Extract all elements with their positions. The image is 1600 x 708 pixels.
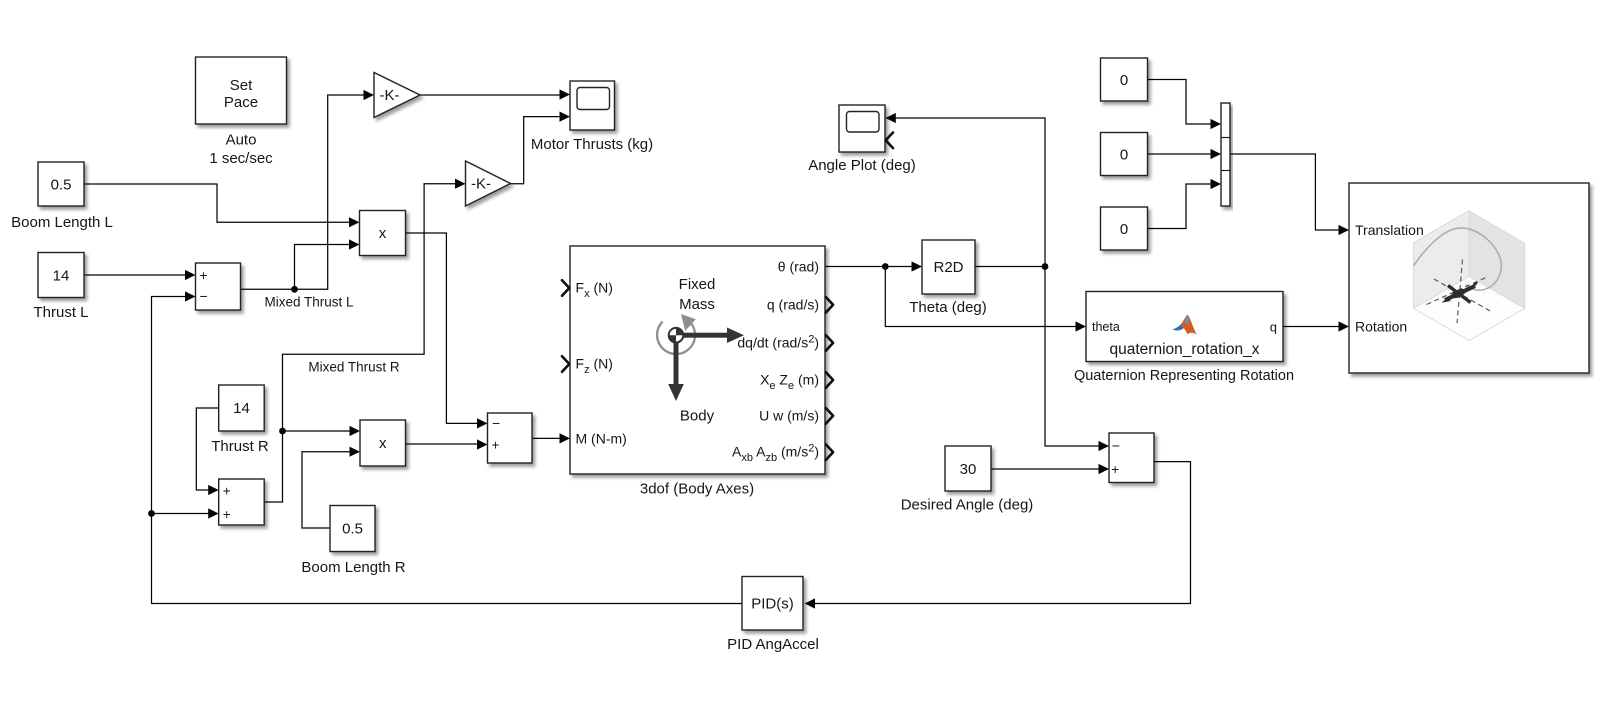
arrow into Product R in1 [350,426,361,436]
junction Mixed Thrust R [279,428,286,435]
pid PID AngAccel [727,577,819,654]
wire theta branch to quaternion block [885,267,1078,327]
arrow into PID [805,598,816,608]
junction theta deg [1042,263,1049,270]
svg-text:Translation: Translation [1355,222,1424,238]
icon label Fixed Mass [679,276,716,313]
port label Axb Azb (m/s2) [732,443,819,465]
svg-text:PID(s): PID(s) [751,596,794,613]
svg-text:x: x [379,435,387,452]
wire PID output feedback to Sum L minus [152,297,743,604]
svg-text:Motor Thrusts (kg): Motor Thrusts (kg) [531,136,653,153]
icon cube floor [1414,277,1525,341]
wire Gain2 out to Motor Thrusts scope in2 [511,117,563,184]
arrow into scope1 in2 [560,112,571,122]
wire Desired Angle to Sum3 plus [991,468,1102,470]
wire feedback branch to Sum R in2 [152,513,212,515]
constant Desired Angle [901,446,1034,514]
chevron output Axb [826,444,833,460]
port label dq/dt (rad/s2) [737,334,819,351]
icon 3dof CoM circle [669,328,684,343]
svg-text:0: 0 [1120,147,1128,164]
arrow into Angle Plot scope [885,113,896,123]
arrow into Sum L plus [185,270,196,280]
wire Sum L out (Mixed Thrust L) to Gain1 [241,95,367,289]
scope Angle Plot [808,105,916,174]
svg-text:0.5: 0.5 [342,521,363,538]
svg-text:θ (rad): θ (rad) [778,259,819,275]
wire Mux out to Translation input [1230,154,1342,230]
svg-text:Boom Length R: Boom Length R [301,559,405,576]
port label U w (m/s) [759,408,819,424]
svg-text:−: − [1112,438,1120,454]
svg-text:0: 0 [1120,72,1128,89]
svg-text:14: 14 [233,400,250,417]
constant Zero1 [1101,58,1148,101]
svg-text:M (N-m): M (N-m) [576,431,627,447]
wire 3dof theta out to R2D [825,266,915,268]
arrow into Translation input [1339,225,1350,235]
wire Gain1 out to Motor Thrusts scope in1 [420,94,563,96]
arrow into R2D [912,261,923,271]
arrow into Mux in1 [1211,119,1222,129]
svg-text:+: + [1111,462,1119,477]
product Product L [360,211,406,256]
icon cube left wall [1414,211,1469,309]
constant Thrust L [33,253,88,322]
scope Motor Thrusts [531,81,653,153]
wire Sum3 out to PID input [812,462,1191,604]
sum Sum R [219,479,265,525]
chevron output q [826,297,833,313]
svg-text:Theta (deg): Theta (deg) [909,299,987,316]
svg-text:Boom Length L: Boom Length L [11,214,113,231]
svg-text:−: − [200,288,208,304]
wire Zero2 to Mux in2 [1148,153,1214,155]
arrow into Sum3 plus [1099,464,1110,474]
display block 6DOF Animation [1349,183,1589,373]
svg-text:Desired Angle (deg): Desired Angle (deg) [901,497,1034,514]
icon label Body [680,408,715,425]
chevron scope Angle Plot unconnected in2 [886,133,893,149]
arrow into Rotation input [1339,321,1350,331]
arrow into Product L in2 [349,239,360,249]
gain Gain1 -K- [374,73,420,118]
label Mixed Thrust L [264,295,354,310]
svg-text:0.5: 0.5 [51,177,72,194]
svg-text:theta: theta [1092,320,1120,334]
svg-text:−: − [492,415,500,431]
wire Boom Length R to Product R in2 [302,452,353,528]
svg-text:Set: Set [230,77,253,94]
wire Sum2 out to 3dof M input [532,437,563,439]
svg-text:Fixed: Fixed [679,276,716,293]
wire Zero3 to Mux in3 [1148,184,1214,229]
svg-text:Auto: Auto [226,132,257,149]
arrow into Sum3 minus [1099,441,1110,451]
icon dashed axis SW-NE [1427,278,1487,305]
arrow into Sum R in1 [208,485,219,495]
svg-text:U w (m/s): U w (m/s) [759,408,819,424]
arrow into quaternion theta [1076,321,1087,331]
icon trajectory curve [1414,228,1502,290]
block R2D [909,240,987,316]
annotation Auto 1 sec/sec [209,132,273,168]
chevron output Uw [826,408,833,424]
wire Thrust L to Sum L plus [84,274,188,276]
wire R2D out to junction [975,266,1045,268]
icon matlab logo [1173,315,1197,335]
arrow into Sum2 minus [477,418,488,428]
wire Theta deg to Angle Plot scope [893,118,1046,267]
icon cube right wall [1469,211,1525,309]
svg-text:Body: Body [680,408,715,425]
icon dashed axis vertical [1457,260,1463,324]
svg-text:+: + [200,268,208,283]
arrow into Mux in3 [1211,179,1222,189]
svg-text:q: q [1270,320,1277,335]
port label Fz (N) [576,356,613,377]
icon 3dof z-axis arrow [668,340,684,401]
port label q (rad/s) [767,297,819,313]
wire Mixed Thrust L branch to Product L in2 [295,245,353,290]
arrow into Gain2 [455,179,466,189]
arrow into Product R in2 [350,447,361,457]
svg-text:14: 14 [53,268,70,285]
junction theta rad [882,263,889,270]
svg-text:30: 30 [960,461,977,478]
svg-text:q (rad/s): q (rad/s) [767,297,819,313]
constant Boom Length L [11,162,113,231]
port label Fx (N) [576,280,613,301]
arrow into Sum2 plus [477,439,488,449]
port label M (N-m) [576,431,627,447]
svg-text:Mixed Thrust L: Mixed Thrust L [264,295,354,310]
constant Zero3 [1101,207,1148,250]
constant Thrust R [211,385,269,455]
block 3dof Body Axes [570,246,825,498]
svg-text:PID AngAccel: PID AngAccel [727,636,819,653]
arrow into 3dof M input [560,433,571,443]
svg-text:dq/dt (rad/s2): dq/dt (rad/s2) [737,334,819,351]
svg-text:quaternion_rotation_x: quaternion_rotation_x [1110,341,1260,358]
svg-text:Rotation: Rotation [1355,319,1407,335]
product Product R [360,420,406,466]
block Set Pace [196,57,287,124]
wire Product L out to Sum2 minus [406,233,481,423]
wire Mixed Thrust R branch to Gain2 [283,184,459,431]
sum Sum2 [488,413,533,463]
svg-text:Pace: Pace [224,94,258,111]
svg-text:-K-: -K- [380,87,400,104]
arrow into Mux in2 [1211,149,1222,159]
svg-text:0: 0 [1120,221,1128,238]
svg-text:-K-: -K- [471,176,491,193]
arrow into scope1 in1 [560,89,571,99]
wire quaternion q out to Rotation input [1283,326,1342,328]
icon 3dof rotation arc [657,314,696,354]
wire Product R out to Sum2 plus [406,443,481,445]
arrow into Gain1 [364,90,375,100]
chevron output dq/dt [826,335,833,351]
mux Mux [1221,103,1230,206]
svg-text:Mixed Thrust R: Mixed Thrust R [308,360,400,375]
arrow into Product L in1 [349,217,360,227]
sum Sum3 [1109,433,1154,483]
port label theta (rad) [778,259,819,275]
constant Boom Length R [301,506,405,577]
svg-text:1 sec/sec: 1 sec/sec [209,150,273,167]
svg-text:Quaternion Representing Rotati: Quaternion Representing Rotation [1074,368,1294,384]
svg-text:+: + [492,438,500,453]
wire Thrust R to Sum R in1 [196,408,218,490]
chevron input Fx [562,280,569,296]
svg-text:Angle Plot (deg): Angle Plot (deg) [808,157,916,174]
svg-text:+: + [223,507,231,522]
matlab function block quaternion_rotation_x [1074,292,1294,385]
svg-text:Mass: Mass [679,296,715,313]
label Mixed Thrust R [308,360,400,375]
svg-text:x: x [379,225,387,242]
svg-text:+: + [223,484,231,499]
icon dashed axis NW-SE [1434,279,1491,312]
chevron output XeZe [826,372,833,388]
svg-text:Thrust L: Thrust L [33,304,88,321]
gain Gain2 -K- [466,161,511,206]
arrow into Sum R in2 [208,508,219,518]
junction PID feedback [148,510,155,517]
sum Sum L [196,263,241,310]
svg-text:3dof (Body Axes): 3dof (Body Axes) [640,481,754,498]
svg-text:R2D: R2D [933,259,963,276]
icon aircraft [1442,282,1478,303]
wire Boom Length L to Product L in1 [84,184,352,222]
wire Zero1 to Mux in1 [1148,80,1214,125]
svg-text:Thrust R: Thrust R [211,438,269,455]
wire Theta deg branch to Sum3 minus [1045,267,1102,447]
wire Sum R out (Mixed Thrust R) to Product R in1 [264,431,352,502]
junction Mixed Thrust L [291,286,298,293]
arrow into Sum L minus [185,291,196,301]
icon 3dof x-axis arrow [681,328,744,344]
port label Xe Ze (m) [760,372,819,393]
constant Zero2 [1101,133,1148,176]
chevron input Fz [562,356,569,372]
